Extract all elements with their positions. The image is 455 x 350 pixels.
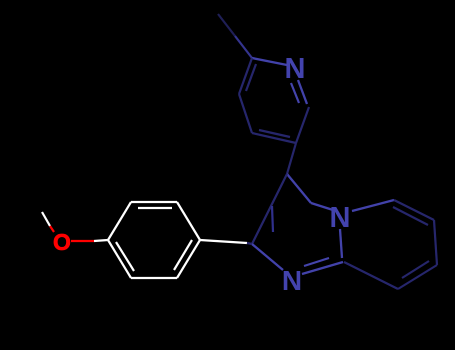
benzene edge BL-L — [108, 240, 131, 278]
imidazole N1=C8a double bond inner — [304, 258, 329, 266]
O-ring bond white half — [94, 240, 108, 241]
six-ring bond C6-C7 — [434, 220, 437, 265]
imidazole bond C2-N1 — [252, 244, 283, 270]
pyridine N1'=C6' double bond main — [298, 80, 307, 104]
svg-text:N: N — [285, 53, 306, 85]
six-ring bond C5-C6 — [394, 200, 434, 220]
pyridine bond C3'-C2' — [239, 58, 252, 94]
pyridine bond C6'-C5' — [296, 107, 309, 143]
benzene BL=L inner double line — [116, 242, 134, 271]
attach bond lower part to C3 — [287, 174, 311, 203]
pyridine methyl substituent bond lower part — [235, 36, 252, 58]
six-ring bond C8-C8a — [344, 262, 398, 289]
imidazole C2=C3 double bond inner fragment — [272, 206, 273, 232]
six-ring C5=C6 inner double line — [393, 207, 428, 225]
O-ring bond red half — [71, 240, 94, 242]
imidazole C2=C3 double bond main — [252, 174, 287, 244]
benzene edge L-TL — [108, 202, 131, 240]
benzene edge BR-BL — [131, 277, 177, 279]
methoxy methyl bond white part — [42, 212, 50, 226]
pyridine bond C5'-C4' — [252, 133, 296, 143]
svg-text:O: O — [53, 229, 71, 255]
pyridine N1'=C6' double bond inner — [291, 83, 299, 103]
benzene edge TL-TR — [131, 201, 177, 203]
svg-text:N: N — [282, 265, 302, 296]
benzene edge R-BR — [177, 240, 200, 278]
benzene edge TR-R — [177, 202, 200, 240]
svg-text:N: N — [330, 202, 351, 234]
pyridine bond C2'-N1' — [252, 58, 287, 65]
imidazole N1=C8a double bond main — [302, 262, 343, 274]
pyridine C5'=C4' inner double line — [259, 130, 290, 137]
benzene R=BR inner double line — [174, 240, 192, 270]
imidazole bond N4-C5 — [352, 200, 394, 211]
attach bond pyridine C5' to C3 upper part — [287, 143, 296, 174]
benzene attach bond dim stub — [247, 243, 252, 244]
pyridine C3'=C2' inner double line — [246, 64, 256, 91]
methoxy methyl bond red tip — [50, 226, 54, 232]
imidazole bond N4-C8a — [340, 229, 342, 258]
benzene attach bond to C2 white part — [200, 240, 247, 243]
imidazole bond C3-N4 — [311, 203, 333, 210]
benzene TL=TR inner double line — [138, 207, 172, 209]
pyridine methyl substituent bond upper part — [218, 14, 235, 36]
six-ring bond C7-C8 — [398, 265, 437, 289]
pyridine bond C4'-C3' — [239, 94, 252, 133]
six-ring C7=C8 inner double line — [402, 261, 429, 278]
